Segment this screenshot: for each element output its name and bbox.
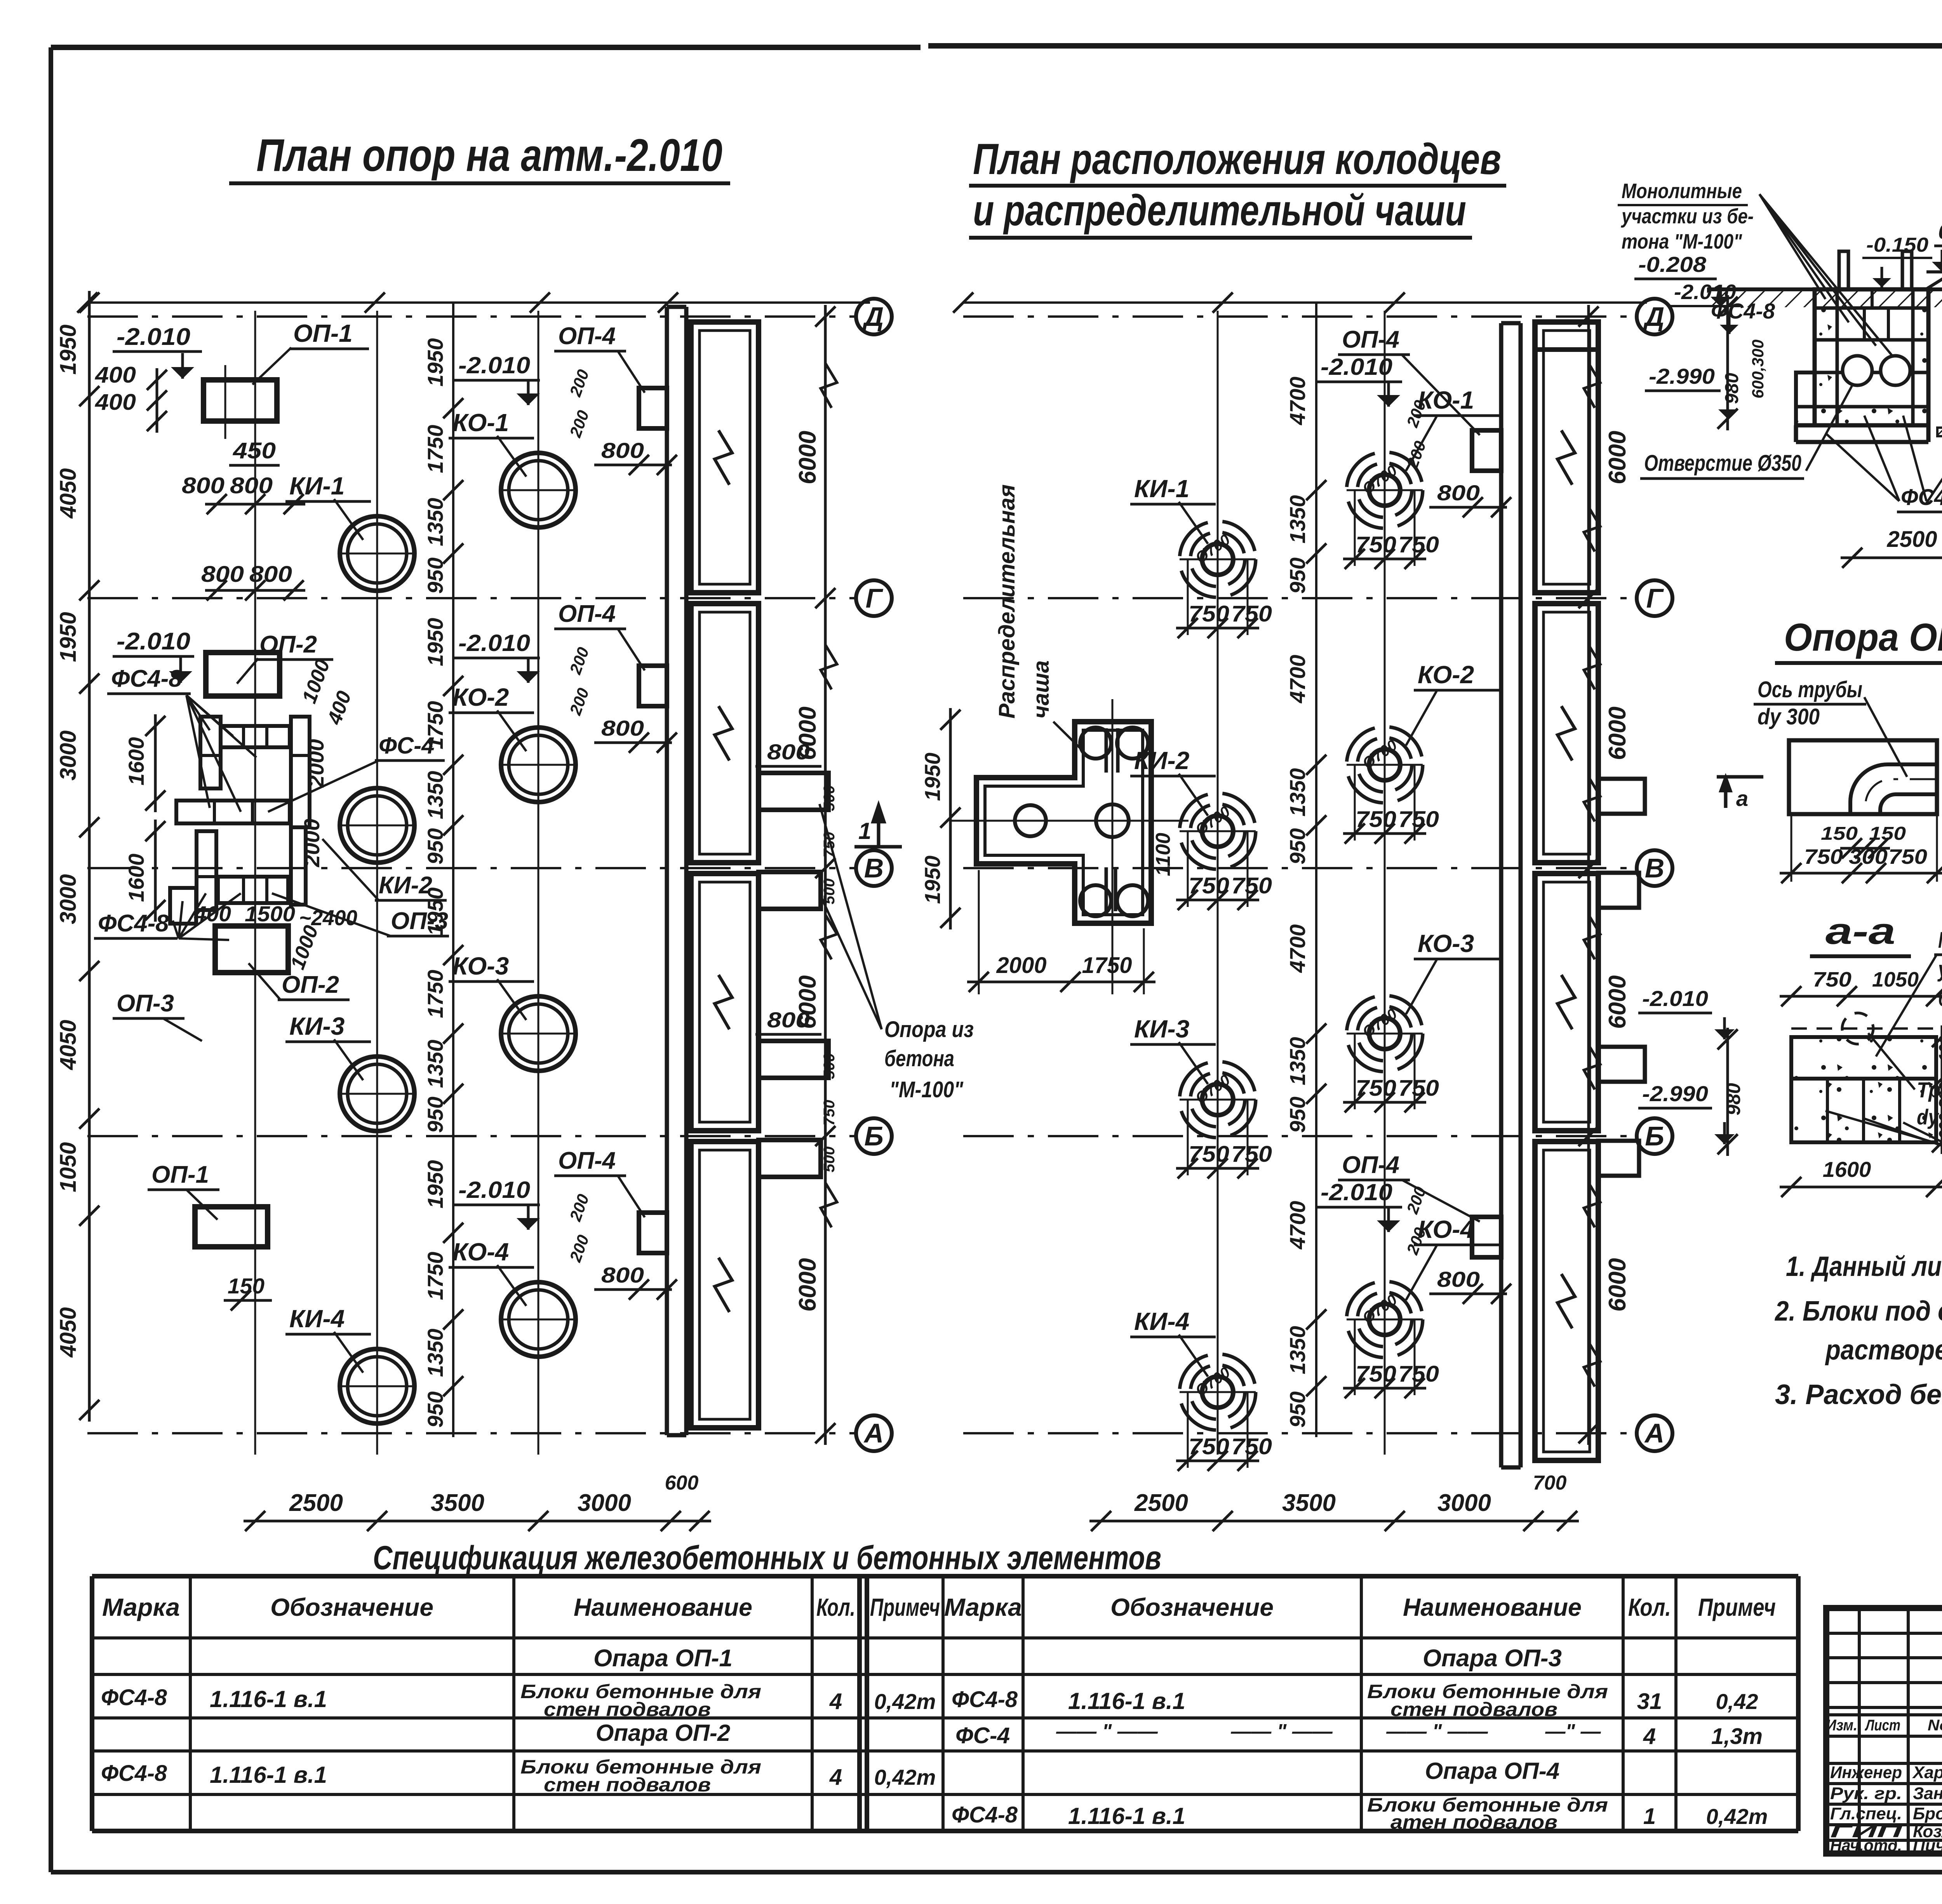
label Truba dy300 a-a: [1868, 1033, 1942, 1129]
svg-text:1350: 1350: [423, 1040, 447, 1088]
svg-text:В: В: [864, 853, 884, 883]
level mark -2.010 at OP-1: [113, 324, 202, 379]
svg-text:бетона "М-100": бетона "М-100": [1938, 986, 1942, 1011]
support OP-4 tab bay 1 middle plan: [1472, 430, 1501, 471]
svg-text:400: 400: [95, 390, 136, 415]
cluster dim 1600 upper: [124, 714, 165, 812]
svg-text:КИ-3: КИ-3: [1134, 1015, 1189, 1043]
svg-text:600: 600: [665, 1472, 699, 1494]
svg-text:Ø700: Ø700: [1359, 1005, 1400, 1041]
svg-text:КИ-4: КИ-4: [289, 1305, 345, 1333]
svg-text:растворе "М-50": растворе "М-50": [1825, 1335, 1942, 1366]
label KI-2 cluster: [322, 839, 447, 900]
svg-text:800: 800: [601, 716, 644, 740]
svg-text:А: А: [1644, 1418, 1665, 1448]
svg-text:Отверстие Ø350: Отверстие Ø350: [1644, 451, 1801, 476]
dim label 3000 left chain: [56, 730, 81, 780]
svg-text:500: 500: [821, 1147, 838, 1173]
svg-text:400: 400: [194, 902, 231, 926]
label KI-1 middle plan: [1130, 475, 1216, 544]
svg-text:ОП-4: ОП-4: [558, 323, 616, 350]
dim 800 at OP-4 bay 4 middle plan: [1429, 1267, 1511, 1304]
svg-text:200: 200: [1403, 1184, 1429, 1217]
well KO-3 middle plan: [1347, 996, 1423, 1072]
section well 2 structure: [1925, 267, 1942, 436]
svg-text:1. Данный лист комплектен с: 1. Данный лист комплектен с листами КЖ-1…: [1786, 1251, 1942, 1282]
label KO-4 left plan: [449, 1238, 534, 1306]
dims 500 750 500 rotated at axis Б left plan: [821, 1053, 838, 1173]
title block signatures: [1830, 1763, 1942, 1855]
svg-text:Кол.: Кол.: [1628, 1593, 1671, 1621]
support tabs right of strip at axis В left plan: [759, 773, 828, 909]
svg-text:"М-100": "М-100": [889, 1077, 964, 1102]
svg-text:КО-1: КО-1: [452, 409, 509, 437]
support OP-4 tab bay 2 left plan: [639, 666, 667, 706]
label FS-4: [268, 733, 445, 812]
svg-text:Брославский: Брославский: [1913, 1804, 1942, 1823]
dims 750 750 at KI-1 middle plan: [1176, 559, 1272, 638]
svg-text:стен подвалов: стен подвалов: [544, 1774, 711, 1796]
middle plan centerline KI wells column: [1217, 311, 1219, 1455]
svg-text:1.116-1 в.1: 1.116-1 в.1: [210, 1686, 327, 1712]
dims 750 750 at KO-3 middle plan: [1343, 1034, 1439, 1112]
spec table header row: [102, 1593, 1776, 1621]
spec table title: [373, 1539, 1161, 1577]
svg-text:Д: Д: [1643, 301, 1665, 332]
dims 800,800 above G axis: [201, 562, 305, 600]
left plan axis line Д: [87, 299, 892, 334]
label KO-3 left plan: [449, 952, 534, 1020]
label KO-2 left plan: [449, 683, 534, 751]
tank wall band left plan bay 3: [691, 874, 759, 1131]
dim label 4050 left chain: [56, 1020, 81, 1070]
dim 980 rotated section: [1718, 295, 1742, 430]
svg-text:Ø700: Ø700: [1192, 1364, 1233, 1399]
dims 400/400 at OP-1: [93, 362, 167, 433]
svg-text:2000: 2000: [996, 953, 1046, 978]
dims 750 750 at KO-2 middle plan: [1343, 765, 1439, 844]
label Opora iz betona M-100 left plan: [820, 804, 974, 1102]
dim label 1950 left chain: [56, 612, 81, 662]
svg-text:2000: 2000: [299, 819, 324, 868]
svg-text:3500: 3500: [431, 1490, 484, 1516]
svg-text:Марка: Марка: [102, 1593, 180, 1621]
level -0.208 section: [1634, 252, 1731, 307]
section well 1 block stack: [1796, 251, 1928, 442]
svg-text:-2.010: -2.010: [458, 1177, 530, 1203]
level -2.990 section left: [1645, 364, 1737, 419]
left plan centerline through OP supports: [254, 311, 256, 1455]
svg-text:1: 1: [1643, 1804, 1656, 1829]
svg-text:Ø700: Ø700: [1192, 531, 1233, 567]
dim 200 200 at OP-4 bay 2 left plan: [566, 645, 592, 718]
middle plan centerline KO wells column: [1384, 311, 1386, 1455]
label Monolitnye uchastki a-a: [1876, 928, 1942, 1056]
support OP-1 rect bottom: [195, 1207, 268, 1247]
svg-text:1600: 1600: [124, 737, 148, 786]
well KO-1 middle plan: [1347, 452, 1423, 528]
svg-text:—— " ——: —— " ——: [1056, 1720, 1158, 1743]
support tabs right of strip at axis В middle plan: [1598, 779, 1645, 908]
svg-text:4050: 4050: [56, 1020, 81, 1070]
svg-text:1050: 1050: [1872, 968, 1919, 991]
svg-text:участки из: участки из: [1937, 957, 1942, 982]
svg-text:ОП-2: ОП-2: [282, 971, 339, 998]
left plan dimension chain line x1167: [452, 303, 454, 1437]
svg-text:3. Расход бетона на монолит: 3. Расход бетона на монолитные участки V…: [1775, 1379, 1942, 1410]
svg-text:450: 450: [233, 438, 276, 463]
svg-text:ФС-4: ФС-4: [955, 1723, 1010, 1748]
svg-text:800: 800: [767, 740, 810, 764]
svg-text:1000: 1000: [286, 922, 323, 973]
svg-text:Ø700: Ø700: [1192, 1071, 1233, 1107]
section mark a left OP-1: [1717, 773, 1763, 811]
section a-a drawing: [1791, 1013, 1936, 1142]
label Os truby dy300 OP-1: [1754, 677, 1907, 777]
svg-text:4: 4: [829, 1689, 842, 1714]
svg-text:3000: 3000: [578, 1490, 631, 1516]
svg-text:400: 400: [95, 362, 136, 388]
svg-text:КО-3: КО-3: [452, 952, 509, 980]
a-a dims right rotated: [1932, 1025, 1942, 1154]
middle plan top dimension line: [953, 292, 1647, 313]
svg-text:200: 200: [566, 1192, 592, 1224]
svg-text:стен подвалов: стен подвалов: [1390, 1699, 1557, 1720]
bowl bottom dims 2000 1750: [967, 870, 1155, 994]
svg-text:Опара ОП-2: Опара ОП-2: [596, 1720, 731, 1746]
svg-text:ФС4-8: ФС4-8: [952, 1802, 1018, 1827]
dim 200 200 at OP-4 bay 1 left plan: [566, 367, 592, 440]
svg-text:Наименование: Наименование: [574, 1593, 752, 1621]
svg-text:Монолитные: Монолитные: [1938, 928, 1942, 953]
svg-text:Изм.: Изм.: [1826, 1717, 1857, 1734]
cluster dim 2000 lower: [299, 819, 324, 868]
cluster dim 400 top: [323, 688, 356, 727]
svg-text:6000: 6000: [1604, 1258, 1631, 1312]
well KO-2 middle plan: [1347, 727, 1423, 803]
dim 1100 rotated: [1152, 833, 1175, 876]
spec row 4: [101, 1756, 1559, 1796]
svg-text:Г: Г: [866, 583, 884, 613]
svg-text:4: 4: [829, 1765, 842, 1790]
svg-text:ФС4-8: ФС4-8: [101, 1685, 167, 1710]
svg-text:1,3т: 1,3т: [1711, 1724, 1763, 1749]
note 2 line 1: [1774, 1296, 1942, 1327]
tank wall band middle plan seg 2: [1535, 604, 1598, 863]
label FS4-8 section fan: [1825, 416, 1942, 512]
level -2.010 at OP-4 bay 4 middle plan: [1317, 1179, 1402, 1232]
label KO-3 middle plan: [1406, 929, 1499, 1014]
label FS4-8 section left: [1711, 299, 1775, 323]
left plan top dimension line: [77, 292, 870, 313]
section ground line: [1707, 289, 1942, 307]
svg-text:1600: 1600: [124, 854, 148, 902]
svg-text:1750: 1750: [423, 970, 447, 1018]
svg-text:200: 200: [566, 686, 592, 718]
svg-text:А: А: [863, 1418, 884, 1448]
svg-text:6000: 6000: [1604, 707, 1631, 760]
svg-text:-2.990: -2.990: [1649, 364, 1715, 388]
svg-text:Инженер: Инженер: [1830, 1763, 1902, 1782]
middle plan 6000 label bay 3: [1604, 975, 1631, 1029]
well KO-4 left plan: [499, 1282, 578, 1357]
left plan axis line А: [87, 1415, 892, 1451]
svg-text:ОП-2: ОП-2: [259, 631, 317, 658]
svg-text:ОП-1: ОП-1: [293, 319, 353, 347]
svg-text:800: 800: [182, 473, 224, 498]
level -2.010 at axis D middle plan: [1670, 280, 1740, 334]
svg-text:dy 300: dy 300: [1758, 704, 1820, 729]
support OP-4 tab bay 4 left plan: [639, 1213, 667, 1253]
cluster dim 1600 lower: [124, 820, 165, 922]
left plan 6000 label bay 3: [794, 975, 821, 1029]
middle plan bottom dimension line: [1089, 1472, 1579, 1531]
svg-text:400: 400: [323, 688, 356, 727]
distribution bowl middle plan: [952, 699, 1189, 994]
well KO-1 left plan: [499, 453, 578, 527]
svg-text:980: 980: [1723, 1083, 1744, 1116]
level -0.150 section: [1862, 234, 1932, 287]
svg-text:Наименование: Наименование: [1403, 1593, 1582, 1621]
svg-text:Опора из: Опора из: [884, 1017, 974, 1042]
svg-text:2500: 2500: [1886, 527, 1937, 552]
svg-text:950: 950: [1285, 1096, 1310, 1133]
left plan centerline KO wells column: [538, 311, 539, 1455]
svg-text:ОП-4: ОП-4: [558, 1147, 616, 1174]
svg-text:800: 800: [1437, 1267, 1480, 1291]
level -2.010 at OP-4 bay 4 left plan: [454, 1177, 540, 1230]
svg-text:750: 750: [1888, 845, 1927, 868]
label OP-4 bay 1 middle plan: [1338, 326, 1480, 435]
dim 800 at OP-4 bay 4 left plan: [594, 1263, 677, 1300]
svg-text:dy 300: dy 300: [1917, 1105, 1942, 1129]
dim label 1050 left chain: [56, 1142, 81, 1192]
bowl left dim chain 1950 1950: [920, 708, 961, 929]
left plan axis line Г: [87, 580, 892, 616]
svg-text:4050: 4050: [56, 1307, 81, 1358]
svg-text:а-а: а-а: [1825, 910, 1895, 952]
svg-text:Нач.отд.: Нач.отд.: [1830, 1836, 1902, 1855]
left plan bay 3 dim chain labels: [423, 888, 463, 1133]
svg-text:Обозначение: Обозначение: [1110, 1593, 1274, 1621]
svg-text:Ось трубы: Ось трубы: [1758, 677, 1862, 702]
dim label 4050 left chain: [56, 468, 81, 519]
svg-text:1950: 1950: [423, 1160, 447, 1209]
svg-text:Пичахчи: Пичахчи: [1913, 1836, 1942, 1855]
note 1: [1786, 1251, 1942, 1282]
title block rev header: [1826, 1717, 1942, 1734]
svg-text:Г: Г: [1646, 583, 1664, 613]
svg-text:Б: Б: [1645, 1121, 1664, 1151]
svg-text:1000: 1000: [298, 656, 334, 707]
svg-text:800: 800: [601, 1263, 644, 1287]
dims 750 750 at KO-1 middle plan: [1343, 490, 1439, 569]
svg-text:Рук. гр.: Рук. гр.: [1830, 1784, 1902, 1803]
svg-text:600,300: 600,300: [1749, 339, 1767, 399]
svg-text:800: 800: [249, 562, 292, 587]
cluster dim 1000 top: [298, 656, 334, 707]
dims 750 750 at KO-4 middle plan: [1343, 1319, 1439, 1398]
a-a level -2.990: [1638, 1081, 1735, 1144]
detail OP-1 plan drawing: [1789, 740, 1937, 814]
well KI-1 left plan: [338, 516, 416, 591]
svg-text:План опор на атм.-2.010: План опор на атм.-2.010: [256, 130, 722, 181]
spec row 2 right: [952, 1681, 1758, 1720]
dim 200 200 at OP-4 bay 4 middle plan: [1403, 1184, 1429, 1257]
label KI-3 middle plan: [1130, 1015, 1216, 1084]
svg-text:КО-4: КО-4: [452, 1238, 509, 1266]
svg-text:1950: 1950: [56, 324, 81, 374]
note 2 line 2: [1825, 1335, 1942, 1366]
left plan bay 4 dim chain labels: [423, 1160, 463, 1428]
tank thin wall middle plan: [1501, 323, 1521, 1467]
left plan right dim line 6000: [815, 305, 837, 1445]
left plan 6000 label bay 4: [794, 1258, 821, 1312]
svg-text:200: 200: [1403, 398, 1429, 430]
svg-text:0.200: 0.200: [1938, 219, 1942, 244]
cluster dim 2000 upper: [304, 739, 328, 788]
svg-text:1950: 1950: [920, 753, 945, 801]
svg-text:Лист: Лист: [1865, 1717, 1900, 1734]
svg-text:-0.150: -0.150: [1866, 234, 1928, 256]
svg-text:3000: 3000: [1437, 1490, 1491, 1516]
svg-text:-2.010: -2.010: [117, 628, 190, 655]
svg-text:3500: 3500: [1282, 1490, 1336, 1516]
middle plan axis line Г: [963, 580, 1672, 616]
label KO-4 middle plan: [1406, 1215, 1499, 1300]
svg-text:ОП-3: ОП-3: [391, 908, 448, 935]
spec table row opora OP-1 OP-3: [593, 1645, 1562, 1672]
svg-text:Ø700: Ø700: [1359, 736, 1400, 772]
svg-text:-2.010: -2.010: [458, 630, 530, 656]
svg-text:стен подвалов: стен подвалов: [544, 1699, 711, 1720]
svg-text:800: 800: [767, 1008, 810, 1032]
svg-text:-2.010: -2.010: [458, 352, 530, 378]
label KI-1 left plan: [285, 472, 371, 540]
section mark 1 left plan: [854, 800, 902, 847]
svg-text:Ø700: Ø700: [1192, 803, 1233, 839]
tank wall band middle plan seg 4: [1535, 1142, 1598, 1460]
level -2.010 at OP-4 bay 1 middle plan: [1317, 354, 1402, 407]
label OP-4 bay 1 left plan: [554, 323, 645, 393]
svg-text:4700: 4700: [1285, 924, 1310, 973]
left plan 6000 label bay 1: [794, 431, 821, 484]
svg-text:КО-2: КО-2: [452, 683, 509, 711]
label FS4-8 upper: [107, 665, 256, 812]
note 3: [1775, 1379, 1942, 1410]
svg-text:Примеч: Примеч: [870, 1593, 940, 1621]
svg-text:Обозначение: Обозначение: [270, 1593, 433, 1621]
svg-text:Б: Б: [864, 1121, 884, 1151]
svg-text:КИ-4: КИ-4: [1134, 1307, 1189, 1335]
support tabs right of strip at axis Б middle plan: [1598, 1047, 1645, 1176]
svg-text:1: 1: [858, 818, 871, 844]
svg-text:800: 800: [601, 438, 644, 463]
well KI-4 middle plan: [1180, 1354, 1256, 1430]
dims 750 750 at KI-4 middle plan: [1176, 1392, 1272, 1471]
tank wall band left plan bay 1: [691, 322, 759, 593]
svg-text:0,42: 0,42: [1716, 1689, 1758, 1714]
svg-text:150: 150: [1821, 823, 1858, 844]
svg-text:Ø700: Ø700: [1359, 462, 1400, 498]
svg-text:1350: 1350: [1285, 1037, 1310, 1086]
tank band top cap middle plan: [1535, 347, 1598, 352]
svg-text:6000: 6000: [794, 431, 821, 484]
tank thin wall left plan: [667, 307, 686, 1435]
middle plan bay 1 dim chain labels: [1285, 377, 1326, 594]
label KO-2 middle plan: [1406, 661, 1499, 745]
support OP-4 tab bay 1 left plan: [639, 388, 667, 428]
well KI-3 middle plan: [1180, 1062, 1256, 1138]
support OP-1 rect top: [204, 365, 277, 439]
dims 600 300 rotated section: [1749, 339, 1767, 399]
dim 800 at tabs axis В left plan: [755, 740, 821, 766]
svg-text:Зантберг: Зантберг: [1913, 1784, 1942, 1803]
dim 200 200 at OP-4 bay 1 middle plan: [1403, 398, 1429, 471]
well KI-4 left plan: [338, 1349, 416, 1424]
left plan bottom dimension line: [244, 1472, 711, 1531]
title: Plan opor na otm -2.010: [229, 130, 730, 183]
label KO-1 middle plan: [1406, 386, 1499, 471]
label raspredelitelnaya chasha: [994, 484, 1084, 752]
svg-text:Примеч: Примеч: [1698, 1593, 1776, 1621]
svg-text:1.116-1 в.1: 1.116-1 в.1: [1068, 1688, 1185, 1714]
svg-text:—— " ——: —— " ——: [1386, 1720, 1488, 1743]
svg-text:ФС-4: ФС-4: [379, 733, 435, 759]
svg-text:ОП-3: ОП-3: [117, 990, 174, 1017]
dim 800 at OP-4 bay 1 left plan: [594, 438, 677, 475]
svg-text:-2.010: -2.010: [1674, 280, 1736, 304]
svg-text:Кол.: Кол.: [816, 1593, 855, 1621]
svg-text:и распределительной чаши: и распределительной чаши: [973, 186, 1466, 235]
spec row 2 left marka: [101, 1681, 936, 1720]
label Monolitnye uchastki iz betona M-100 section: [1618, 179, 1903, 369]
svg-text:КО-3: КО-3: [1418, 929, 1474, 957]
svg-text:4700: 4700: [1285, 377, 1310, 426]
level -2.010 at OP-4 bay 1 left plan: [454, 352, 540, 405]
well KI-2 middle plan: [1180, 793, 1256, 869]
FS4-8 block cluster: [170, 717, 310, 973]
svg-text:-0.208: -0.208: [1638, 252, 1707, 277]
svg-text:—" —: —" —: [1545, 1720, 1601, 1743]
level 0.200 section: [1926, 219, 1942, 272]
middle plan bay 2 dim chain labels: [1285, 655, 1326, 865]
svg-text:2500: 2500: [289, 1490, 343, 1516]
svg-text:4050: 4050: [56, 468, 81, 519]
well KI-1 middle plan: [1180, 521, 1256, 597]
svg-text:700: 700: [1533, 1472, 1567, 1494]
svg-text:4700: 4700: [1285, 655, 1310, 704]
support tabs right of strip at axis Б left plan: [759, 1041, 828, 1177]
svg-text:Опара ОП-4: Опара ОП-4: [1425, 1758, 1560, 1784]
dims 750 750 at KI-2 middle plan: [1176, 831, 1272, 910]
svg-text:тона "М-100": тона "М-100": [1622, 230, 1742, 253]
left plan axis line В: [87, 850, 892, 886]
svg-text:1350: 1350: [1285, 768, 1310, 817]
svg-text:6000: 6000: [1604, 431, 1631, 484]
middle plan bay 4 dim chain labels: [1285, 1201, 1326, 1428]
level -2.010 at OP-4 bay 2 left plan: [454, 630, 540, 683]
svg-text:-2.010: -2.010: [1642, 986, 1708, 1011]
dim label 3000 left chain: [56, 874, 81, 924]
spec table grid: [92, 1576, 1798, 1831]
svg-text:План расположения колодцев: План расположения колодцев: [973, 135, 1501, 183]
middle plan axis line Б: [963, 1118, 1672, 1154]
svg-text:2500: 2500: [1134, 1490, 1188, 1516]
label Otverstie 350: [1640, 385, 1853, 479]
svg-text:КИ-1: КИ-1: [1134, 475, 1189, 503]
label OP-4 bay 4 left plan: [554, 1147, 645, 1217]
